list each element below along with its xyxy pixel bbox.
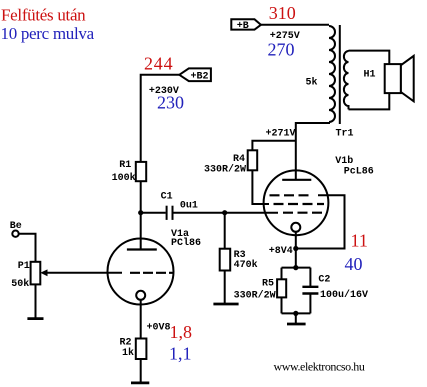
wire loop right branch lower — [309, 294, 311, 314]
svg-text:100u/16V: 100u/16V — [320, 289, 368, 301]
wire R1 bottom to V1a plate — [140, 181, 142, 249]
svg-text:40: 40 — [345, 254, 363, 274]
svg-text:PcL86: PcL86 — [344, 167, 374, 178]
wire P1 bottom to ground — [35, 284, 37, 318]
resistor R5 — [234, 279, 287, 302]
svg-text:470k: 470k — [234, 259, 258, 271]
wire R4 bottom to V1b screen grid — [252, 170, 269, 204]
svg-text:H1: H1 — [364, 70, 376, 81]
svg-text:1k: 1k — [122, 347, 134, 359]
svg-text:+B: +B — [237, 21, 249, 32]
svg-text:1,8: 1,8 — [170, 322, 193, 342]
svg-text:230: 230 — [157, 93, 184, 113]
V1b grid1 (dashed) — [283, 212, 327, 214]
svg-text:+8V4: +8V4 — [269, 246, 293, 257]
ground of R3 — [213, 303, 238, 306]
wire branch to R4 (screen supply) — [252, 141, 295, 151]
net label +B — [231, 19, 261, 32]
svg-text:1,1: 1,1 — [169, 343, 192, 363]
wire V1b cathode down to R5/C2 — [295, 232, 297, 267]
node dot R5/C2 top junction — [293, 265, 298, 270]
svg-text:Felfütés után: Felfütés után — [1, 5, 86, 24]
wire R5/C2 parallel loop bottom — [282, 312, 311, 314]
svg-text:270: 270 — [268, 40, 295, 60]
wire from +B2 label to R1 top — [141, 75, 180, 162]
V1a plate bar — [127, 248, 157, 250]
svg-text:C2: C2 — [318, 275, 330, 286]
transformer Tr1 primary winding 5k — [306, 26, 336, 122]
ground of P1 — [27, 317, 43, 320]
svg-text:P1: P1 — [18, 261, 30, 272]
wire loop left branch lower — [281, 297, 283, 313]
svg-text:50k: 50k — [11, 278, 29, 290]
svg-text:330R/2W: 330R/2W — [204, 163, 246, 175]
svg-text:10 perc mulva: 10 perc mulva — [1, 24, 95, 43]
node dot cathode/feedback junction — [293, 246, 298, 251]
V1b grid3 (dashed) — [270, 194, 314, 196]
wire R3 from g1 junction down — [224, 213, 226, 249]
svg-text:C1: C1 — [161, 192, 173, 203]
net label +B2 — [179, 68, 211, 82]
svg-text:5k: 5k — [306, 77, 318, 89]
svg-text:100k: 100k — [112, 172, 136, 184]
wire loop left branch upper — [281, 268, 283, 280]
resistor R4 — [204, 150, 257, 175]
ground of R2 — [131, 381, 149, 384]
wire primary bottom to V1b plate column — [296, 122, 329, 180]
svg-text:Tr1: Tr1 — [336, 128, 354, 139]
wire V1b g3 to cathode (feedback strap) — [296, 195, 345, 248]
svg-text:+B2: +B2 — [191, 72, 209, 83]
svg-text:V1b: V1b — [335, 155, 353, 167]
speaker H1 loop box — [349, 51, 390, 110]
svg-text:+0V8: +0V8 — [147, 323, 171, 334]
wire V1a grid lead from P1 wiper — [44, 272, 122, 274]
wire R2 bottom to ground — [140, 359, 142, 383]
capacitor C2 — [302, 275, 368, 302]
node dot loop bottom junction — [293, 311, 298, 316]
svg-text:310: 310 — [269, 3, 296, 23]
wire R5/C2 parallel loop top — [282, 267, 311, 269]
wire V1a cathode lead down to R2 — [140, 300, 142, 339]
svg-text:R5: R5 — [262, 279, 274, 290]
node dot R1/C1/plate junction — [138, 210, 143, 215]
potentiometer P1 — [11, 261, 47, 290]
wire loop right branch upper — [309, 268, 311, 287]
svg-text:R1: R1 — [119, 160, 131, 171]
V1b grid2 (dashed) — [274, 203, 325, 205]
resistor R3 — [220, 249, 258, 271]
svg-text:R2: R2 — [120, 337, 132, 348]
svg-text:244: 244 — [144, 54, 173, 74]
wire loop bottom to ground — [295, 313, 297, 324]
transformer Tr1 core — [339, 25, 341, 124]
svg-text:www.elektroncso.hu: www.elektroncso.hu — [274, 359, 365, 373]
triode V1a envelope — [108, 239, 174, 305]
svg-text:PCl86: PCl86 — [171, 237, 201, 249]
svg-text:+271V: +271V — [266, 129, 296, 140]
svg-text:0u1: 0u1 — [180, 200, 198, 211]
resistor R2 — [120, 337, 147, 359]
V1a cathode circle — [136, 291, 145, 300]
wire Be terminal to P1 top — [19, 234, 36, 262]
svg-text:330R/2W: 330R/2W — [234, 289, 276, 301]
V1a grid (dashed) — [130, 272, 173, 274]
V1b plate bar — [282, 179, 311, 181]
wire junction to C1 left plate — [141, 212, 166, 214]
svg-text:11: 11 — [351, 230, 368, 250]
wire R3 bottom to ground — [224, 271, 226, 305]
ground of R5/C2 — [287, 323, 306, 326]
resistor R1 — [112, 160, 147, 184]
speaker H1 cone — [401, 56, 414, 101]
input terminal Be — [10, 221, 22, 237]
wire +B label to transformer primary top — [261, 24, 329, 26]
wire C1 right plate to V1b grid1 junction — [173, 212, 278, 214]
pentode V1b envelope — [264, 170, 329, 235]
capacitor C1 — [161, 192, 198, 220]
V1b cathode circle — [291, 223, 300, 232]
node dot C1/R3/g1 junction — [222, 210, 227, 215]
transformer Tr1 secondary winding — [344, 51, 349, 109]
speaker H1 driver rectangle — [385, 64, 401, 93]
